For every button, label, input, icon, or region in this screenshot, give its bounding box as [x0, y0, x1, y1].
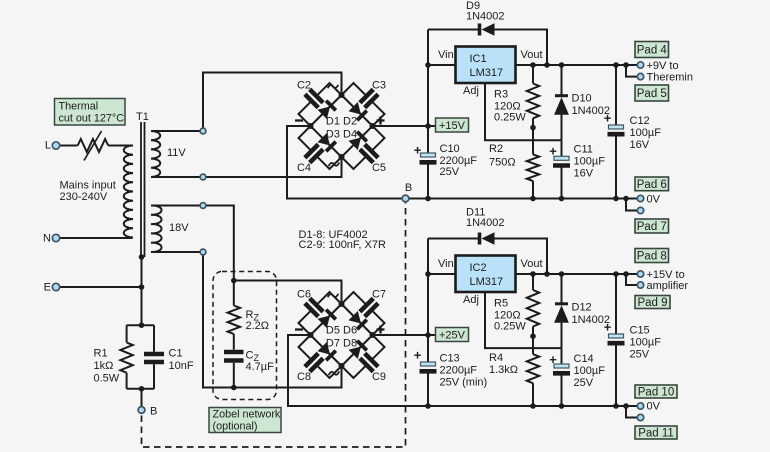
svg-text:R2: R2 [489, 143, 503, 155]
svg-text:C12: C12 [630, 115, 650, 127]
svg-text:+9V to: +9V to [647, 60, 679, 72]
svg-text:0V: 0V [647, 401, 661, 413]
svg-text:D1 D2: D1 D2 [326, 116, 357, 128]
svg-text:Pad 9: Pad 9 [637, 297, 667, 309]
svg-text:Theremin: Theremin [647, 72, 693, 84]
svg-text:B: B [150, 406, 157, 418]
svg-text:Vout: Vout [521, 258, 543, 270]
svg-text:Mains input: Mains input [60, 180, 116, 192]
svg-text:Thermal: Thermal [59, 101, 99, 113]
svg-text:LM317: LM317 [470, 67, 504, 79]
svg-text:750Ω: 750Ω [489, 156, 516, 168]
svg-text:C7: C7 [372, 289, 386, 301]
svg-text:+: + [549, 352, 557, 367]
svg-text:25V: 25V [630, 349, 650, 361]
svg-text:C14: C14 [574, 353, 594, 365]
svg-text:+: + [604, 320, 612, 335]
svg-text:100µF: 100µF [574, 365, 606, 377]
svg-text:R3: R3 [494, 89, 508, 101]
svg-text:R5: R5 [494, 298, 508, 310]
svg-text:(optional): (optional) [213, 421, 258, 433]
svg-text:1kΩ: 1kΩ [94, 360, 114, 372]
svg-text:C2-9: 100nF, X7R: C2-9: 100nF, X7R [299, 239, 386, 251]
svg-text:100µF: 100µF [630, 337, 662, 349]
svg-text:C10: C10 [440, 143, 460, 155]
svg-text:0.25W: 0.25W [494, 320, 526, 332]
svg-text:+25V: +25V [439, 330, 466, 342]
svg-text:D7 D8: D7 D8 [326, 338, 357, 350]
svg-text:Vin: Vin [438, 258, 454, 270]
svg-text:Pad 11: Pad 11 [638, 428, 674, 440]
svg-text:1N4002: 1N4002 [466, 11, 505, 23]
svg-text:R1: R1 [94, 348, 108, 360]
svg-text:C11: C11 [574, 144, 593, 156]
svg-text:D3 D4: D3 D4 [326, 129, 357, 141]
svg-text:C5: C5 [372, 162, 386, 174]
svg-text:+: + [549, 144, 557, 159]
svg-text:Pad 6: Pad 6 [637, 179, 667, 191]
svg-text:amplifier: amplifier [647, 280, 689, 292]
svg-text:Adj: Adj [463, 85, 479, 97]
svg-text:Vout: Vout [521, 49, 543, 61]
svg-text:25V (min): 25V (min) [440, 377, 488, 389]
svg-text:230-240V: 230-240V [60, 191, 108, 203]
svg-text:11V: 11V [167, 147, 186, 159]
svg-text:1.3kΩ: 1.3kΩ [489, 364, 518, 376]
svg-text:Adj: Adj [463, 294, 479, 306]
svg-text:N: N [43, 233, 51, 245]
svg-text:D5 D6: D5 D6 [326, 325, 357, 337]
svg-text:B: B [405, 182, 412, 194]
svg-text:0.5W: 0.5W [94, 373, 120, 385]
svg-text:C3: C3 [372, 80, 386, 92]
svg-text:C9: C9 [372, 371, 386, 383]
svg-text:2200µF: 2200µF [440, 365, 478, 377]
svg-text:+: + [414, 143, 422, 158]
svg-text:Pad 8: Pad 8 [637, 251, 667, 263]
svg-text:L: L [45, 140, 51, 152]
svg-text:1N4002: 1N4002 [466, 217, 505, 229]
svg-text:C15: C15 [630, 325, 650, 337]
svg-text:0.25W: 0.25W [494, 111, 526, 123]
svg-text:C4: C4 [297, 162, 311, 174]
svg-text:Pad 10: Pad 10 [638, 387, 674, 399]
svg-text:Pad 5: Pad 5 [637, 88, 667, 100]
svg-text:10nF: 10nF [169, 360, 194, 372]
svg-text:Pad 4: Pad 4 [637, 45, 668, 57]
svg-text:16V: 16V [574, 168, 594, 180]
svg-text:C8: C8 [297, 371, 311, 383]
svg-text:+15V: +15V [439, 120, 466, 132]
svg-text:25V: 25V [574, 377, 594, 389]
svg-text:Vin: Vin [438, 49, 454, 61]
svg-text:+: + [604, 111, 612, 126]
svg-text:16V: 16V [630, 139, 650, 151]
svg-text:IC2: IC2 [470, 262, 487, 274]
svg-text:Zobel network: Zobel network [213, 409, 281, 421]
svg-text:4.7µF: 4.7µF [246, 361, 275, 373]
svg-text:C6: C6 [297, 289, 311, 301]
svg-text:2.2Ω: 2.2Ω [246, 320, 270, 332]
svg-text:D12: D12 [572, 302, 592, 314]
svg-text:LM317: LM317 [470, 276, 504, 288]
svg-text:R4: R4 [489, 352, 503, 364]
svg-text:IC1: IC1 [470, 53, 487, 65]
svg-text:T1: T1 [136, 111, 149, 123]
svg-text:0V: 0V [647, 194, 661, 206]
svg-text:100µF: 100µF [630, 127, 662, 139]
svg-text:18V: 18V [169, 222, 189, 234]
svg-text:25V: 25V [440, 166, 460, 178]
svg-text:C2: C2 [297, 80, 311, 92]
svg-text:+: + [414, 348, 422, 363]
svg-text:C1: C1 [169, 348, 183, 360]
svg-text:100µF: 100µF [574, 156, 606, 168]
svg-text:cut out 127°C: cut out 127°C [59, 113, 125, 125]
svg-text:C13: C13 [440, 353, 460, 365]
svg-text:Pad 7: Pad 7 [637, 221, 667, 233]
svg-text:D10: D10 [572, 93, 592, 105]
svg-text:E: E [44, 282, 51, 294]
